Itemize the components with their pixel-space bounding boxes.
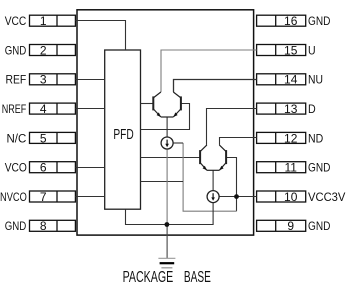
svg-text:REF: REF <box>6 74 27 87</box>
svg-text:15: 15 <box>284 43 298 57</box>
svg-text:1: 1 <box>40 14 47 28</box>
svg-text:D: D <box>308 103 316 116</box>
svg-text:VCC: VCC <box>5 15 27 28</box>
svg-text:GND: GND <box>308 162 330 175</box>
svg-text:4: 4 <box>40 102 47 116</box>
svg-text:VCO: VCO <box>5 162 27 175</box>
svg-text:7: 7 <box>40 190 47 204</box>
svg-text:6: 6 <box>40 161 47 175</box>
svg-text:GND: GND <box>308 15 330 28</box>
svg-text:PACKAGE: PACKAGE <box>123 268 174 285</box>
svg-text:N/C: N/C <box>7 132 27 145</box>
svg-text:PFD: PFD <box>113 125 133 143</box>
svg-text:2: 2 <box>40 43 47 57</box>
svg-text:GND: GND <box>308 220 330 233</box>
svg-text:3: 3 <box>40 73 47 87</box>
svg-text:GND: GND <box>5 220 27 233</box>
svg-text:NU: NU <box>308 74 323 87</box>
svg-text:13: 13 <box>284 102 298 116</box>
svg-text:11: 11 <box>284 161 297 175</box>
svg-text:12: 12 <box>284 131 298 145</box>
svg-text:U: U <box>308 45 316 58</box>
svg-text:BASE: BASE <box>184 268 211 286</box>
svg-text:9: 9 <box>287 219 294 233</box>
svg-text:16: 16 <box>284 14 298 28</box>
svg-text:5: 5 <box>40 131 47 145</box>
svg-text:8: 8 <box>40 219 47 233</box>
svg-text:NREF: NREF <box>2 103 27 117</box>
svg-text:ND: ND <box>308 133 323 146</box>
svg-text:NVCO: NVCO <box>0 191 27 204</box>
svg-text:VCC3V: VCC3V <box>308 191 346 204</box>
svg-text:10: 10 <box>284 190 298 204</box>
svg-text:GND: GND <box>5 45 27 58</box>
svg-text:14: 14 <box>284 73 298 87</box>
